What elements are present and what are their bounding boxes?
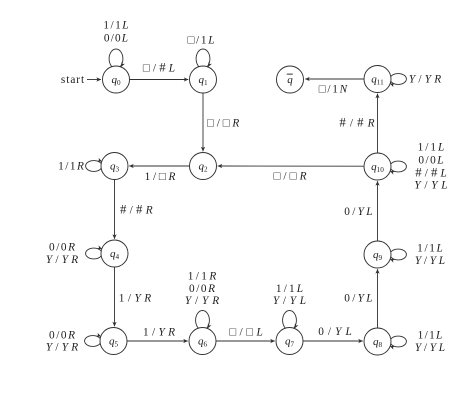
svg-text:start: start: [61, 74, 85, 86]
svg-text:□/□R: □/□R: [207, 118, 239, 130]
svg-text:1/□R: 1/□R: [145, 171, 176, 183]
svg-text:0/0R: 0/0R: [49, 330, 75, 342]
svg-text:0/0R: 0/0R: [189, 283, 215, 295]
svg-text:Y/YR: Y/YR: [409, 74, 441, 86]
svg-text:1/YR: 1/YR: [143, 327, 175, 339]
svg-text:□/#L: □/#L: [143, 61, 175, 75]
svg-text:□/1L: □/1L: [188, 35, 215, 47]
svg-text:#/#R: #/#R: [120, 203, 153, 217]
svg-text:1/1L: 1/1L: [417, 243, 443, 255]
svg-text:1/1L: 1/1L: [418, 330, 443, 342]
svg-text:0/YL: 0/YL: [344, 206, 372, 218]
svg-text:1/1L: 1/1L: [276, 283, 303, 295]
svg-text:Y/YR: Y/YR: [185, 295, 219, 307]
svg-text:0/0R: 0/0R: [49, 242, 75, 254]
svg-text:Y/YR: Y/YR: [46, 342, 78, 354]
svg-text:Y/YL: Y/YL: [273, 295, 306, 307]
svg-text:1/1L: 1/1L: [418, 142, 445, 154]
svg-text:1/1L: 1/1L: [103, 20, 128, 32]
svg-text:#/#L: #/#L: [415, 165, 447, 179]
svg-text:0/YL: 0/YL: [344, 293, 372, 305]
svg-text:1/1R: 1/1R: [58, 161, 84, 173]
svg-text:#/#R: #/#R: [339, 116, 374, 130]
svg-text:Y/YL: Y/YL: [415, 255, 445, 267]
svg-text:0/YL: 0/YL: [318, 326, 352, 338]
svg-text:□/□L: □/□L: [229, 326, 263, 338]
svg-text:0/0L: 0/0L: [104, 33, 128, 45]
svg-text:1/1R: 1/1R: [188, 271, 217, 283]
svg-text:Y/YR: Y/YR: [46, 254, 78, 266]
svg-text:Y/YL: Y/YL: [415, 342, 445, 354]
svg-text:1/YR: 1/YR: [119, 293, 151, 305]
svg-text:Y/YL: Y/YL: [414, 180, 447, 192]
svg-text:q: q: [287, 74, 293, 86]
svg-text:□/□R: □/□R: [273, 170, 306, 182]
svg-text:□/1N: □/1N: [319, 84, 349, 96]
